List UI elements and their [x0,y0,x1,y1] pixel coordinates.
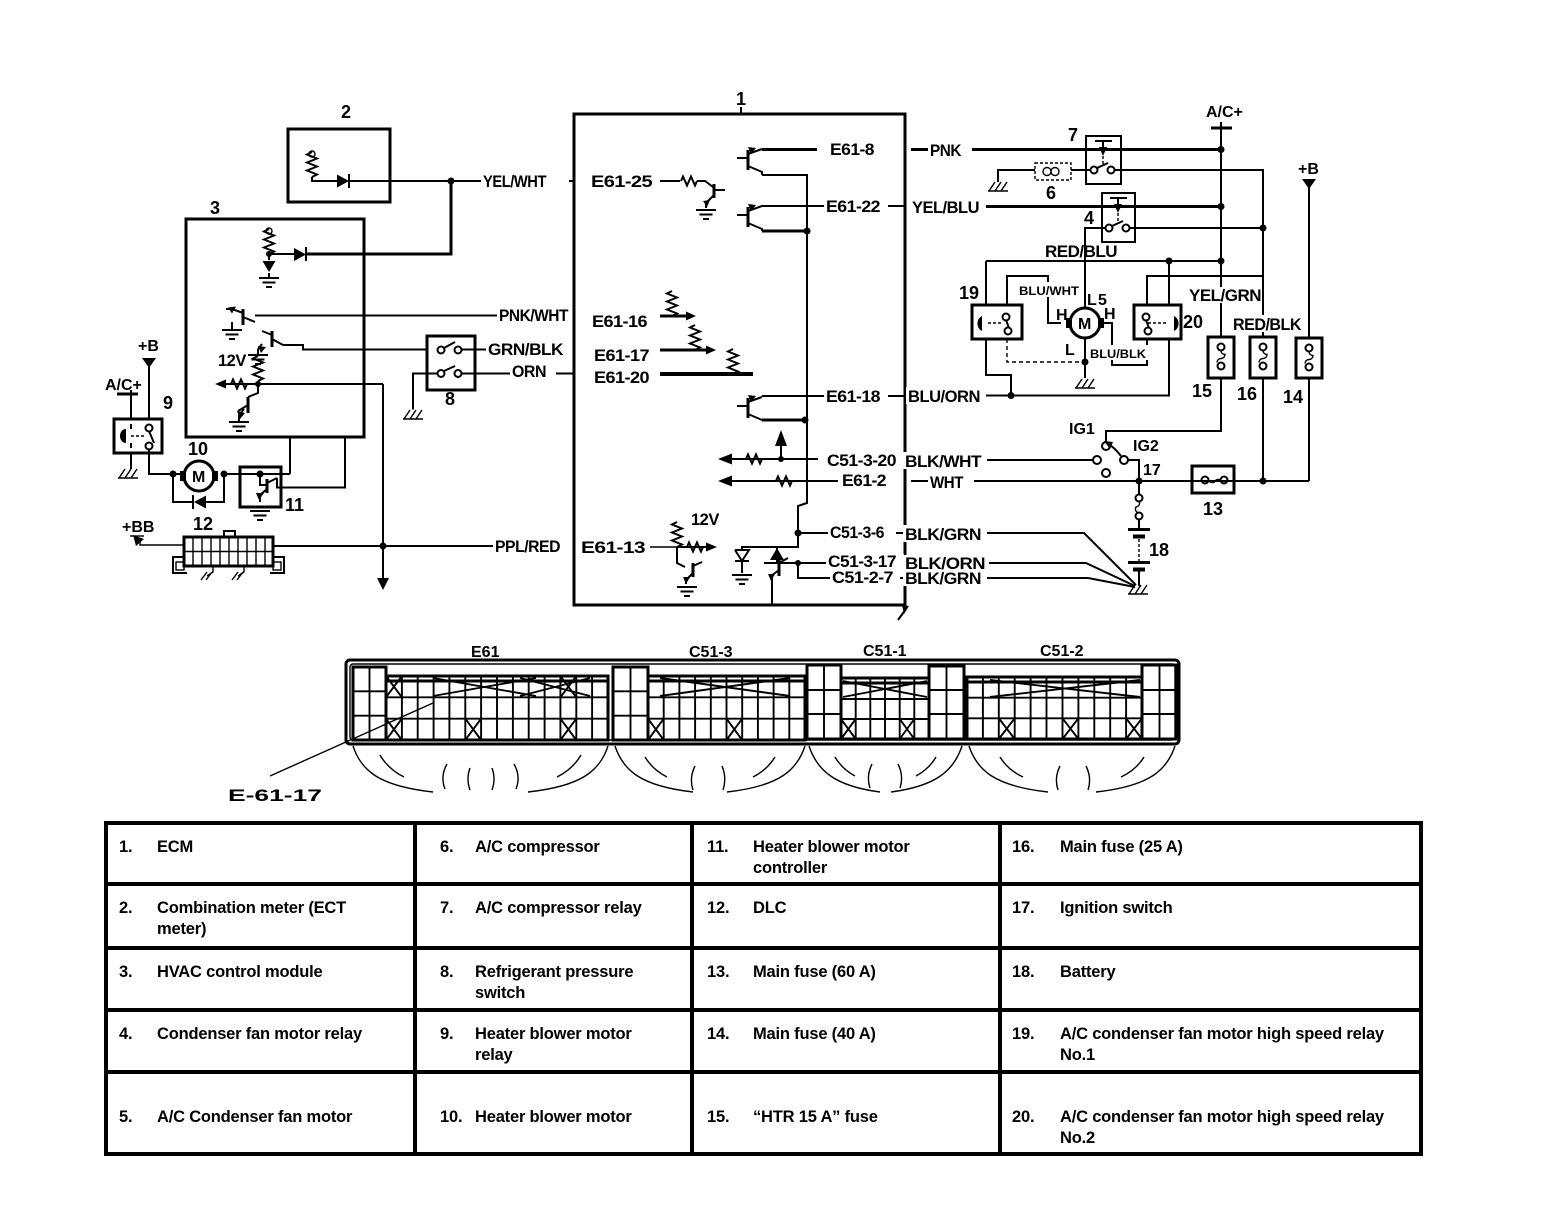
wire relay19 coil to BLU/ORN [986,339,1011,395]
node box3 resistor junction [266,251,272,257]
label PNK [928,141,972,160]
transistor in controller 11 [256,474,277,502]
connector C51-2 tall block right [1142,665,1177,739]
svg-text:meter): meter) [157,920,206,938]
svg-text:17: 17 [1143,462,1161,479]
svg-text:13: 13 [1203,499,1223,519]
wire feed to relay19 switch and BLU/WHT to motor [1007,276,1061,323]
svg-text:15: 15 [1192,381,1212,401]
legend cell 4 [119,1025,363,1043]
legend cell 8 [440,963,633,1002]
wire motor 5 to ground [1084,338,1086,378]
svg-text:11: 11 [285,495,304,515]
heater blower motor 10 [180,439,218,491]
legend cell 11 [707,838,910,877]
wire RED/BLU [986,261,1221,305]
svg-text:ECM: ECM [157,838,193,856]
svg-text:9: 9 [163,393,173,413]
12V resistor at E61-13 [672,511,719,547]
svg-text:13.: 13. [707,963,729,981]
svg-text:No.2: No.2 [1060,1129,1095,1147]
svg-text:E61-18: E61-18 [826,388,880,406]
svg-text:6.: 6. [440,838,453,856]
transistor pair bottom (E61-22) [737,204,762,231]
legend cell 5 [119,1108,353,1126]
label BLU/ORN [906,387,986,406]
legend cell 18 [1012,963,1116,981]
svg-text:3.: 3. [119,963,132,981]
svg-text:8: 8 [445,389,455,409]
resistor in box 3 [264,228,274,254]
svg-text:Main fuse (60 A): Main fuse (60 A) [753,963,876,981]
svg-text:14.: 14. [707,1025,729,1043]
svg-text:M: M [192,469,205,486]
A/C condenser fan motor 5 [1066,308,1104,338]
node fuse16 WHT [1260,478,1267,485]
wire fans under C51-2 [969,746,1175,792]
wire fans under C51-3 [615,746,805,792]
legend cell 20 [1012,1108,1385,1147]
pin ticks on right edge of box 1 [904,144,906,584]
svg-text:A/C compressor relay: A/C compressor relay [475,899,643,917]
zener branch wire [742,533,798,550]
wire feed relay20 switch from fuse16 bus [1147,276,1263,305]
svg-text:18: 18 [1149,540,1169,560]
svg-text:Combination meter (ECT: Combination meter (ECT [157,899,346,917]
label GRN/BLK [486,340,574,359]
svg-text:A/C Condenser fan motor: A/C Condenser fan motor [157,1108,353,1126]
svg-text:12.: 12. [707,899,729,917]
svg-text:19: 19 [959,283,979,303]
svg-text:E61-16: E61-16 [592,313,647,331]
svg-text:PNK: PNK [930,142,962,160]
svg-text:RED/BLK: RED/BLK [1233,316,1302,334]
svg-text:ORN: ORN [512,363,546,381]
svg-text:switch: switch [475,984,525,1002]
svg-text:IG2: IG2 [1133,438,1159,455]
pin ticks on left edge of box 1 [573,175,575,553]
svg-text:No.1: No.1 [1060,1046,1095,1064]
node YEL/WHT junction [448,178,455,185]
resistor arrow right at E61-13 [677,543,717,552]
svg-text:HVAC control module: HVAC control module [157,963,323,981]
svg-text:4: 4 [1084,208,1094,228]
wire box8 row2 left to ground [413,374,437,410]
svg-text:C51-3: C51-3 [689,644,733,661]
wire motor 10 to controller 11 [224,473,290,475]
svg-text:10: 10 [188,439,208,459]
zener diode to ground [735,550,749,573]
svg-text:A/C+: A/C+ [1206,104,1243,121]
node C51-3-17 [795,560,801,566]
label YEL/BLU [910,198,986,217]
ground under zener [732,575,752,584]
node PPL/RED drop junction [380,543,387,550]
connector C51-3 grid [648,676,805,740]
ground under controller 11 [250,511,270,520]
svg-text:DLC: DLC [753,899,787,917]
svg-text:7.: 7. [440,899,453,917]
svg-text:RED/BLU: RED/BLU [1045,243,1117,261]
svg-text:A/C condenser fan motor high s: A/C condenser fan motor high speed relay [1060,1025,1385,1043]
wire PNK E61-8 to A/C+ bus [911,148,1221,151]
wire relay20 coil from RED/BLU [1168,261,1170,305]
wire IG2 to battery node [1128,460,1139,481]
motor 5 labels H L 5 H L [1056,292,1116,359]
relay 20 contacts [1143,314,1152,335]
pin label E61-13 [581,539,677,557]
transistor at E61-13 [677,547,702,584]
legend cell 2 [119,899,346,938]
wire YEL/BLU E61-22 to A/C+ bus [911,205,1221,208]
legend cell 16 [1012,838,1183,856]
svg-text:12V: 12V [691,511,719,529]
relay 20 coil [1148,316,1179,331]
svg-text:YEL/GRN: YEL/GRN [1189,287,1261,305]
label BLK/WHT [903,452,987,471]
svg-text:18.: 18. [1012,963,1034,981]
svg-text:Heater blower motor: Heater blower motor [753,838,910,856]
node battery top [1136,478,1143,485]
legend cell 3 [119,963,323,981]
transistor at C51-3-17 [768,558,788,605]
node 12V junction [255,381,261,387]
wire BLK/WHT E61 to ignition [911,459,1093,461]
pin label E61-22 [824,198,888,216]
combination meter box 2 [288,102,390,202]
svg-text:E61-20: E61-20 [594,369,649,387]
label BLK/ORN [903,555,989,573]
svg-text:H: H [1056,307,1068,324]
C51-3-20 line with arrow and resistor [718,430,818,465]
relay 9 contact [131,425,154,450]
pin label E61-20 with resistor [594,349,753,387]
pin label E61-16 with resistor [592,291,696,331]
ground in box 3 upper [259,278,279,287]
node right of motor 10 [221,471,228,478]
ground under Q3 [229,415,249,431]
svg-text:Condenser fan motor relay: Condenser fan motor relay [157,1025,363,1043]
arrow at box1 bottom right [898,605,909,620]
label YEL/WHT [481,172,569,191]
svg-text:19.: 19. [1012,1025,1034,1043]
pin label E61-25 [591,173,697,191]
pin label C51-2-7 [830,569,900,587]
legend cell 6 [440,838,600,856]
pin label E61-2 [840,472,894,490]
A/C condenser fan motor high speed relay No.2 box 20 [1134,305,1203,339]
resistor in box 2 [307,151,317,177]
svg-text:10.: 10. [440,1108,462,1126]
svg-text:1.: 1. [119,838,132,856]
svg-text:E61-25: E61-25 [591,173,652,191]
legend cell 9 [440,1025,632,1064]
wire E61-18 emitter to bus [762,419,807,422]
small grounds under DLC [201,572,243,580]
legend cell 19 [1012,1025,1385,1064]
label BLK/GRN second [903,570,987,588]
label WHT [928,473,974,492]
svg-text:Main fuse (25 A): Main fuse (25 A) [1060,838,1183,856]
wire box3 down to node 11 [289,437,291,474]
svg-text:17.: 17. [1012,899,1034,917]
svg-text:YEL/BLU: YEL/BLU [912,199,979,217]
internal bus of box 1 [762,175,807,533]
svg-text:YEL/WHT: YEL/WHT [483,173,546,191]
+BB supply [122,519,184,546]
svg-text:C51-3-6: C51-3-6 [830,524,884,542]
main fuse 25A box 16 [1237,337,1276,404]
wire Q2 to GRN/BLK [283,345,427,350]
ignition switch 17 [1069,421,1161,479]
svg-text:E-61-17: E-61-17 [228,786,322,805]
svg-text:A/C+: A/C+ [105,377,142,394]
transistor at E61-18 [737,395,762,420]
pin label E61-18 [824,388,888,406]
ECM box 1 [574,89,905,605]
svg-text:E61-22: E61-22 [826,198,880,216]
wire E61-22 emitter to bus [762,230,807,233]
wire A/C+ through relay9 coil to ground [130,453,132,469]
svg-text:BLU/BLK: BLU/BLK [1090,347,1146,361]
svg-text:A/C compressor: A/C compressor [475,838,600,856]
wire controller 11 collector to box 3 [277,438,345,488]
svg-text:BLU/ORN: BLU/ORN [908,388,980,406]
label ORN [510,362,556,381]
wire node down to box 3 diode [306,181,451,254]
transistor at E61-25 [697,181,725,208]
ground under Q1 [222,322,242,339]
wire DLC to PPL/RED [273,545,574,547]
legend cell 12 [707,899,787,917]
heater blower motor controller box 11 [240,467,304,515]
wire E61-8 [762,148,817,151]
ground under E61-25 transistor [696,210,716,219]
svg-text:5.: 5. [119,1108,132,1126]
label YEL/GRN [1187,287,1261,305]
svg-text:12: 12 [193,514,213,534]
resistor 12V in box 3 [253,356,263,381]
connector C51-1 grid [841,678,929,739]
wire 12V node to vertical drop [258,383,383,385]
svg-text:+B: +B [138,338,159,355]
svg-text:E61-17: E61-17 [594,347,649,365]
relay 7 contacts [1091,163,1115,174]
svg-text:3: 3 [210,198,220,218]
svg-text:C51-3-20: C51-3-20 [827,452,896,470]
wire compressor 6 to ground [998,170,1035,182]
A/C compressor relay box 7 [1068,125,1121,184]
svg-text:controller: controller [753,859,828,877]
svg-text:16.: 16. [1012,838,1034,856]
A/C compressor box 6 [1035,163,1071,203]
label RED/BLK [1231,315,1309,334]
legend cell 10 [440,1108,632,1126]
svg-text:“HTR 15 A” fuse: “HTR 15 A” fuse [753,1108,878,1126]
wire BLU/ORN E61-18 to relay 20 coil [911,340,1169,396]
pin label E61-17 with resistor [594,325,716,365]
transistor pair top (E61-8) [737,147,762,175]
pin label C51-3-17 [826,553,904,571]
node C51-3-6 [795,530,802,537]
A/C condenser fan motor high speed relay No.1 box 19 [959,283,1022,339]
main fuse 60A box 13 [1192,466,1234,519]
svg-text:7: 7 [1068,125,1078,145]
node RED/BLU at relay20 coil [1166,258,1173,265]
label PPL/RED [493,537,575,556]
label BLK/GRN [903,525,987,544]
legend cell 15 [707,1108,878,1126]
svg-text:16: 16 [1237,384,1257,404]
A/C+ supply left [105,377,142,419]
relay 19 coil [977,316,1002,331]
DLC connector 12 [173,514,284,576]
svg-text:Refrigerant pressure: Refrigerant pressure [475,963,633,981]
svg-text:E61: E61 [471,644,500,661]
main fuse 40A box 14 [1283,338,1322,407]
switch contacts in box 8 row 1 [438,342,462,354]
diode up at C51-3-17 [770,547,784,563]
wire relay 4 switch right to fuse16 bus [1130,227,1263,229]
connector E61 tall block [353,667,386,740]
svg-text:4.: 4. [119,1025,132,1043]
wire Q1 to PNK/WHT [255,315,574,317]
node E61-18 emitter bus [802,417,809,424]
wire relay9 switch to motor 10 [149,449,181,474]
svg-text:1: 1 [736,89,746,109]
svg-text:2: 2 [341,102,351,122]
diode across motor 10 [173,474,224,509]
heater blower motor relay box 9 [114,393,173,453]
relay 4 armature [1110,198,1127,224]
transistor Q3 in box 3 [237,384,258,419]
relay 9 coil [120,424,131,448]
ground under Q2 [248,349,268,364]
E61-2 line with arrow and resistor [718,476,838,487]
wire fans under C51-1 [809,746,962,792]
condenser fan motor relay box 4 [1084,193,1135,242]
wire E61-18 [762,395,905,397]
HVAC control module box 3 [186,198,364,437]
svg-text:6: 6 [1046,183,1056,203]
diode to ground in box 3 [263,254,276,278]
wire BLK/GRN C51-3-6 to battery ground [911,533,1136,585]
ground under E61-13 transistor [677,587,697,596]
+B supply left [138,338,159,419]
wire C51-3-6 [798,532,905,534]
svg-text:BLK/GRN: BLK/GRN [905,570,981,588]
switch contacts in box 8 row 2 [438,366,462,377]
transistor Q1 in box 3 [226,307,255,326]
wire box8 row2 to ORN pin [461,373,574,375]
+B supply right [1298,161,1319,338]
svg-text:C51-2-7: C51-2-7 [832,569,893,587]
svg-text:BLK/WHT: BLK/WHT [905,453,981,471]
connector C51-1 tall block right [929,666,964,739]
connector C51-3 tall block [613,667,648,740]
wire drop from 12V line down to PPL/RED and arrow [377,384,389,590]
diode in box 2 [312,174,349,188]
HTR 15A fuse 15 [1192,337,1234,401]
svg-text:12V: 12V [218,352,246,370]
ground under battery 18 [1128,585,1148,594]
wire arrow left with resistor in box 3 [215,380,283,389]
svg-text:BLU/WHT: BLU/WHT [1019,284,1080,298]
node YEL/BLU at A/C+ bus [1218,203,1225,210]
connector C51-1 tall block left [807,665,841,739]
svg-text:+BB: +BB [122,519,154,536]
svg-text:L: L [1087,292,1097,309]
label BLU/BLK [1088,345,1150,361]
node PNK at A/C+ bus [1218,146,1225,153]
node motor ground [1082,359,1089,366]
callout E-61-17 [228,703,433,805]
wire fuse15 to IG1 [1106,378,1221,441]
relay 7 armature [1095,141,1112,166]
svg-text:11.: 11. [707,838,728,856]
node RED/BLU at A/C+ bus [1218,258,1225,265]
ground under relay 9 [118,469,138,478]
label PNK/WHT [497,306,585,325]
svg-text:9.: 9. [440,1025,453,1043]
legend table frame [106,823,1421,1154]
legend cell 13 [707,963,876,981]
svg-text:IG1: IG1 [1069,421,1095,438]
svg-text:+B: +B [1298,161,1319,178]
svg-text:Main fuse (40 A): Main fuse (40 A) [753,1025,876,1043]
pin label C51-3-6 [828,524,896,542]
svg-text:L: L [1065,342,1075,359]
connector strip outer frame [346,660,1179,744]
node in controller 11 [257,471,264,478]
connector E61 grid [386,676,608,740]
node E61-22 emitter bus [804,228,811,235]
diode to YEL/WHT in box 3 [269,247,306,261]
wire BLK/ORN C51-3-17 to battery ground [911,563,1135,586]
svg-text:14: 14 [1283,387,1303,407]
wire YEL/WHT to ECM [451,180,574,182]
svg-text:A/C condenser fan motor high s: A/C condenser fan motor high speed relay [1060,1108,1385,1126]
relay 4 contacts [1106,221,1130,232]
node BLU/ORN relay19 [1008,392,1015,399]
svg-text:C51-1: C51-1 [863,643,907,660]
svg-text:GRN/BLK: GRN/BLK [488,341,564,359]
svg-text:H: H [1104,306,1116,323]
node left of motor 10 [170,471,177,478]
legend cell 1 [119,838,193,856]
wire box8 to GRN/BLK pin [461,349,574,351]
svg-text:C51-2: C51-2 [1040,643,1084,660]
svg-text:2.: 2. [119,899,132,917]
legend cell 17 [1012,899,1173,917]
svg-text:20: 20 [1183,312,1203,332]
wire fuse14 to WHT line [1308,378,1310,481]
svg-text:20.: 20. [1012,1108,1034,1126]
svg-text:PPL/RED: PPL/RED [495,538,561,556]
wire box2 to YEL/WHT node [349,180,451,182]
svg-text:PNK/WHT: PNK/WHT [499,307,568,325]
svg-text:E61-8: E61-8 [830,141,874,159]
transistor Q2 in box 3 [258,331,283,353]
ground under box 8 [403,410,423,419]
ground under compressor 6 [988,182,1008,191]
wire fuse16 to WHT line [1262,378,1264,481]
wire compressor 6 to relay 7 [1071,169,1090,171]
label BLU/WHT [1017,282,1081,298]
svg-text:WHT: WHT [930,474,963,492]
svg-text:relay: relay [475,1046,514,1064]
wire BLU/BLK motor to relay 20 [1104,323,1147,365]
